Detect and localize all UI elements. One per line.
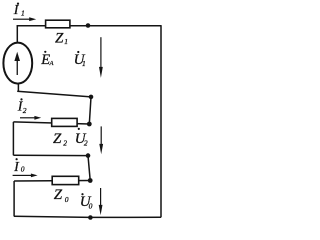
- svg-text:1: 1: [82, 59, 86, 68]
- svg-text:0: 0: [21, 165, 25, 174]
- label U1: [74, 51, 86, 68]
- current source EA circle: [3, 43, 32, 84]
- svg-text:Z: Z: [55, 30, 64, 46]
- wire left top vertical: [16, 25, 18, 43]
- svg-text:A: A: [49, 60, 54, 67]
- label I2: [17, 98, 27, 115]
- wire Z0 loop left vertical: [13, 181, 15, 216]
- node Z2 right: [87, 122, 92, 127]
- wire vertical connector node1-node2: [89, 97, 91, 124]
- resistor Z0: [52, 176, 78, 184]
- current arrow I1: [13, 17, 36, 21]
- wire bottom horizontal: [14, 216, 161, 217]
- svg-text:Z: Z: [54, 187, 63, 203]
- svg-text:2: 2: [63, 139, 67, 148]
- wire Z0 branch horizontal: [14, 180, 90, 183]
- label EA: [40, 51, 53, 68]
- wire Z2 loop left vertical: [12, 122, 14, 155]
- voltage arrow U1: [99, 37, 103, 78]
- svg-text:2: 2: [23, 106, 27, 115]
- label Z1: [55, 30, 68, 46]
- wire source return sloped: [17, 91, 91, 97]
- node Z0 right: [88, 178, 93, 183]
- wire right vertical: [160, 25, 162, 217]
- wire below source: [17, 83, 19, 91]
- svg-text:Z: Z: [53, 131, 62, 147]
- node A top: [86, 23, 91, 28]
- wire vertical connector node3-node4: [88, 156, 90, 181]
- resistor Z1: [46, 20, 70, 28]
- wire top horizontal: [17, 25, 161, 27]
- wire Z2 branch horizontal: [13, 122, 89, 124]
- current arrow I0: [13, 174, 38, 178]
- resistor Z2: [52, 118, 77, 126]
- current source arrow: [14, 52, 20, 75]
- svg-text:1: 1: [21, 9, 25, 18]
- current arrow I2: [20, 116, 41, 120]
- voltage arrow U2: [99, 126, 103, 154]
- voltage arrow U0: [99, 188, 103, 215]
- svg-text:0: 0: [89, 201, 93, 210]
- label I0: [13, 158, 25, 175]
- label U0: [80, 193, 93, 210]
- node Z2 loop bottom: [86, 153, 91, 158]
- label I1: [13, 3, 25, 18]
- node source return: [89, 95, 94, 100]
- label Z2: [53, 131, 67, 147]
- svg-text:2: 2: [84, 139, 88, 148]
- node bottom wire: [88, 215, 93, 220]
- svg-text:1: 1: [64, 37, 68, 46]
- label U2: [75, 128, 88, 148]
- wire Z2 loop bottom horizontal: [13, 154, 88, 156]
- label Z0: [54, 187, 69, 204]
- svg-text:0: 0: [65, 195, 69, 204]
